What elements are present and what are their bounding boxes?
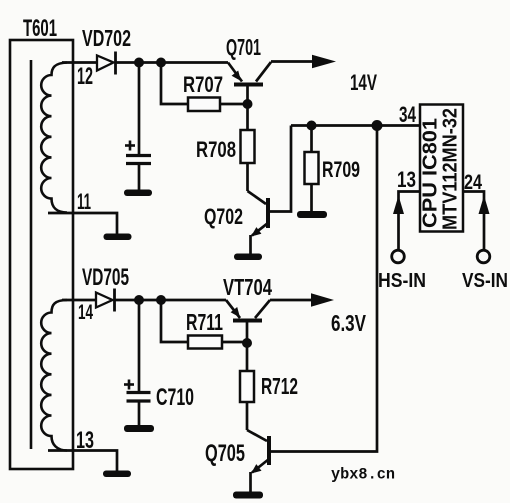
svg-text:R708: R708 bbox=[196, 137, 236, 162]
svg-text:CPU IC801: CPU IC801 bbox=[420, 118, 442, 228]
svg-text:Q705: Q705 bbox=[205, 440, 245, 467]
svg-text:14: 14 bbox=[78, 301, 93, 324]
svg-text:14V: 14V bbox=[350, 70, 377, 95]
svg-text:6.3V: 6.3V bbox=[331, 310, 366, 336]
svg-text:R709: R709 bbox=[322, 157, 360, 182]
svg-text:VD702: VD702 bbox=[82, 25, 131, 51]
svg-text:24: 24 bbox=[464, 171, 482, 194]
svg-text:R711: R711 bbox=[186, 309, 223, 335]
svg-text:VD705: VD705 bbox=[82, 264, 129, 291]
svg-text:HS-IN: HS-IN bbox=[378, 270, 426, 292]
svg-text:12: 12 bbox=[77, 63, 93, 90]
svg-text:MTV112MN-32: MTV112MN-32 bbox=[440, 108, 462, 230]
svg-text:VS-IN: VS-IN bbox=[462, 270, 508, 292]
svg-text:T601: T601 bbox=[23, 15, 57, 42]
svg-text:34: 34 bbox=[399, 102, 417, 127]
svg-text:VT704: VT704 bbox=[223, 274, 272, 300]
svg-text:ybx8.cn: ybx8.cn bbox=[331, 466, 395, 484]
svg-text:Q701: Q701 bbox=[226, 34, 261, 60]
svg-text:13: 13 bbox=[397, 167, 416, 192]
svg-text:R707: R707 bbox=[183, 72, 223, 97]
svg-text:C710: C710 bbox=[156, 384, 194, 411]
svg-text:13: 13 bbox=[76, 427, 94, 454]
svg-text:R712: R712 bbox=[261, 373, 298, 399]
svg-text:11: 11 bbox=[77, 189, 91, 214]
svg-text:Q702: Q702 bbox=[204, 204, 243, 229]
